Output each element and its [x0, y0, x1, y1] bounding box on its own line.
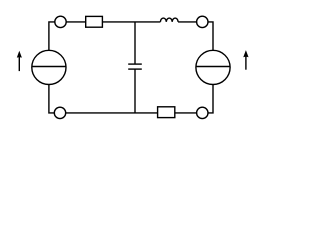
- wire I2 top lead: [208, 22, 213, 50]
- capacitor C1: [128, 64, 142, 69]
- wire I1 bottom lead: [49, 85, 54, 113]
- current source I1: [32, 50, 66, 84]
- wire I2 bottom lead: [208, 85, 213, 113]
- resistor R1: [86, 16, 103, 27]
- resistor R2: [158, 107, 175, 118]
- wire bottom-left terminal to R2: [66, 112, 158, 114]
- current source I1 arrow: [17, 51, 22, 71]
- wire R2 to bottom-right terminal: [175, 112, 197, 114]
- current source I2 arrow: [243, 50, 248, 70]
- wire I1 top lead: [49, 22, 55, 50]
- inductor L1: [160, 18, 178, 22]
- wire L1 to top-right terminal: [178, 21, 197, 23]
- node terminal top-left: [55, 16, 66, 27]
- wire capacitor bottom lead: [134, 69, 136, 113]
- wire R1 to L1 (through capacitor junction): [102, 21, 160, 23]
- current source I2: [196, 50, 230, 84]
- node terminal bottom-left: [54, 107, 65, 118]
- node terminal top-right: [197, 16, 208, 27]
- node terminal bottom-right: [197, 107, 208, 118]
- wire top-left to R1: [66, 21, 86, 23]
- wire capacitor top lead: [134, 22, 136, 64]
